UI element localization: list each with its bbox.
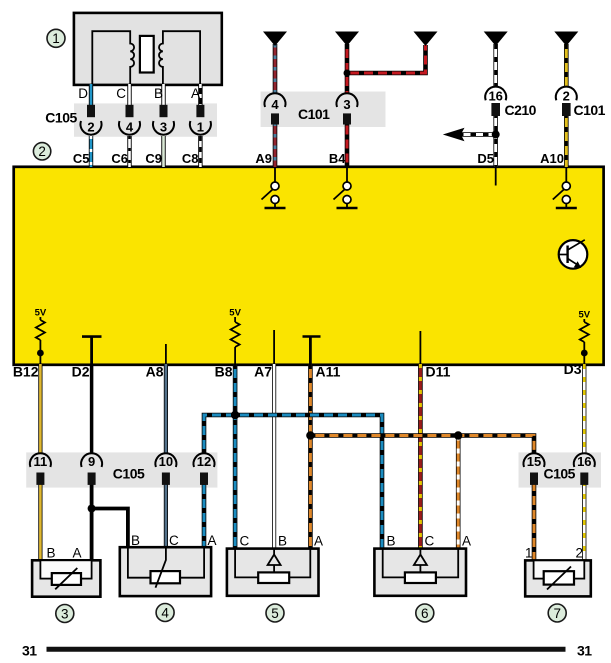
sensor 5 pot box — [227, 549, 319, 596]
svg-text:C105: C105 — [544, 466, 576, 482]
svg-text:A: A — [72, 546, 81, 561]
switch inside ECU at A10 — [553, 168, 577, 208]
wire A10 / C101 (yellow/black) — [564, 44, 569, 167]
C105 bottom pin 10 square — [162, 473, 170, 485]
C105 bottom pin 11 square — [36, 473, 44, 485]
svg-text:A: A — [208, 533, 217, 548]
coil core — [140, 36, 154, 73]
C105 bottom pin 9 arc — [81, 453, 102, 467]
ref circle 6 — [416, 604, 434, 622]
svg-text:B: B — [154, 86, 163, 101]
svg-text:B4: B4 — [329, 151, 346, 166]
svg-text:C: C — [425, 534, 435, 549]
svg-text:31: 31 — [577, 643, 592, 659]
transistor Q1 — [559, 240, 588, 269]
svg-text:B: B — [131, 533, 140, 548]
svg-text:4: 4 — [271, 97, 279, 112]
svg-text:7: 7 — [553, 606, 561, 621]
wire B / pin3 / C9 (white-green) — [161, 84, 165, 167]
svg-text:C5: C5 — [73, 151, 90, 166]
C101 pin 4 arc — [265, 93, 286, 107]
svg-text:3: 3 — [343, 97, 350, 112]
sensor 3 coolant temp box — [32, 560, 100, 596]
svg-text:B8: B8 — [215, 364, 233, 380]
svg-text:A7: A7 — [254, 364, 272, 380]
svg-text:B12: B12 — [13, 364, 39, 380]
C105 bottom pin 12 square — [200, 473, 208, 485]
pot resistor sensor6 — [405, 572, 436, 583]
wire D3 / pin16 (white/yellow) — [582, 364, 586, 562]
C101 right pin 2 arc — [556, 87, 577, 101]
svg-text:16: 16 — [577, 454, 591, 469]
svg-text:D: D — [78, 86, 88, 101]
svg-text:C: C — [240, 534, 250, 549]
triangle terminal above C210 — [484, 32, 508, 47]
ref circle 3 — [56, 605, 74, 623]
C105 top pin 3 arc — [153, 121, 174, 135]
ground bus 31 — [47, 647, 566, 652]
C101 right pin 2 square — [562, 103, 571, 116]
svg-text:2: 2 — [38, 144, 46, 159]
thermistor R sensor7 — [544, 571, 574, 584]
svg-text:6: 6 — [421, 606, 429, 621]
svg-text:3: 3 — [61, 606, 69, 621]
svg-text:5V: 5V — [35, 308, 47, 319]
C105 top pin 2 arc — [81, 121, 102, 135]
junction pin9 branch — [88, 505, 96, 513]
svg-text:B: B — [387, 534, 396, 549]
C101 pin 4 square — [271, 113, 279, 124]
junction orange bus / sensor6 A branch — [454, 431, 462, 439]
svg-text:5V: 5V — [229, 308, 241, 319]
ref circle 7 — [548, 604, 566, 622]
triangle terminal above A10 — [554, 32, 578, 47]
svg-text:C8: C8 — [182, 151, 199, 166]
svg-text:A8: A8 — [146, 364, 164, 380]
svg-text:A: A — [462, 534, 471, 549]
stub inside ECU at A7 — [273, 330, 275, 364]
wire pin15 to sensor7 pin1 (orange/black) — [532, 484, 537, 562]
connector C105 top gray box — [74, 103, 217, 136]
svg-text:1: 1 — [525, 546, 533, 561]
wire D2 / pin9 (black) — [90, 364, 94, 454]
C105 bottom pin 11 arc — [30, 453, 51, 467]
internal link T at D2 — [82, 337, 102, 364]
svg-text:4: 4 — [161, 605, 169, 620]
C210 pin 16 arc — [485, 87, 506, 101]
wire B12 / pin11 (yellow) — [38, 364, 42, 562]
svg-text:C210: C210 — [505, 102, 537, 118]
wire orange/black bus to pin15 — [310, 436, 534, 455]
svg-text:C101: C101 — [298, 106, 330, 122]
wire blue/black bus: pin12 elbow to sensor6 B — [204, 415, 382, 550]
svg-text:4: 4 — [126, 120, 134, 135]
wire D / pin2 / C5 (blue) — [89, 84, 93, 167]
5V pull-up resistor at B12 — [35, 308, 47, 365]
svg-text:10: 10 — [159, 454, 173, 469]
pot resistor sensor4 — [151, 571, 181, 583]
ref circle 2 — [33, 143, 50, 160]
svg-text:16: 16 — [488, 89, 502, 104]
C105 bottom pin 15 square — [530, 473, 538, 485]
secondary winding L2 — [159, 31, 200, 85]
svg-text:C6: C6 — [111, 151, 128, 166]
wire branch to arrow (white/black) — [459, 132, 496, 137]
svg-text:C: C — [169, 533, 179, 548]
C101 pin 3 arc — [337, 93, 358, 107]
svg-text:9: 9 — [88, 454, 95, 469]
svg-text:1: 1 — [197, 120, 204, 135]
wire B8 (blue/black) vertical to sensor5 C — [233, 364, 238, 550]
5V pull-up resistor at D3 — [578, 310, 590, 365]
svg-text:C105: C105 — [45, 110, 77, 126]
svg-text:D11: D11 — [426, 364, 451, 380]
wire orange/white down to sensor6 A — [456, 436, 461, 550]
switch inside ECU at B4 — [334, 168, 358, 208]
connector C101 gray box — [261, 92, 386, 128]
svg-text:31: 31 — [22, 643, 37, 659]
wire D5 / C210 (white/black) — [493, 44, 498, 167]
svg-text:A9: A9 — [255, 151, 272, 166]
svg-text:A: A — [191, 86, 200, 101]
svg-text:15: 15 — [527, 454, 541, 469]
svg-text:D5: D5 — [477, 151, 494, 166]
wire red/black horizontal to third arrow — [347, 45, 426, 73]
C105 bottom pin 15 arc — [524, 453, 545, 467]
triangle terminal third — [414, 32, 438, 47]
junction at D5 arrow branch — [492, 131, 500, 139]
svg-text:C: C — [116, 86, 126, 101]
svg-text:A: A — [314, 534, 323, 549]
svg-text:2: 2 — [563, 89, 570, 104]
wire black branch to sensor4 B — [92, 509, 128, 549]
stub inside ECU at A8 — [165, 344, 167, 364]
svg-text:D3: D3 — [564, 361, 582, 377]
C105 top pin 4 arc — [119, 121, 140, 135]
triangle terminal above A9 — [263, 32, 287, 47]
ref circle 5 — [266, 604, 284, 622]
svg-text:D2: D2 — [72, 364, 90, 380]
svg-text:11: 11 — [34, 454, 48, 469]
wire A8 / pin10 (slate) — [164, 364, 168, 549]
connector C105 bottom-left gray box — [26, 452, 217, 487]
junction B8 / blue bus — [231, 411, 239, 419]
ref circle 4 — [156, 604, 174, 622]
wire C / pin4 / C6 (white) — [127, 84, 131, 167]
stub inside ECU at D5 — [495, 168, 497, 186]
sensor 7 temp sensor box — [525, 560, 591, 596]
C101 pin 3 square — [343, 113, 351, 124]
pot resistor sensor5 — [258, 572, 289, 583]
C105 top pin 1 arc — [190, 121, 211, 135]
stub inside ECU at D11 — [419, 331, 421, 364]
ECU box (component 2) yellow — [14, 167, 604, 365]
svg-text:5V: 5V — [578, 310, 590, 321]
svg-text:B: B — [47, 546, 56, 561]
svg-text:5: 5 — [271, 606, 279, 621]
C105 top pin 1 square — [196, 105, 204, 117]
ignition coil assembly box (component 1) — [74, 13, 222, 85]
svg-text:C105: C105 — [113, 466, 145, 482]
svg-text:B: B — [278, 534, 287, 549]
primary winding L1 — [92, 31, 134, 85]
junction at B4 branch — [344, 70, 351, 77]
ref circle 1 — [47, 29, 65, 47]
svg-text:A10: A10 — [540, 151, 564, 166]
wire A11 (orange/black) vertical to sensor5 A — [308, 364, 313, 550]
svg-text:1: 1 — [52, 31, 60, 46]
C105 top pin 3 square — [160, 105, 168, 117]
svg-text:A11: A11 — [316, 364, 341, 380]
C210 pin 16 square — [491, 103, 500, 116]
wire D11 (dark red/yellow) to sensor6 C — [418, 364, 423, 550]
internal link T at A11 — [303, 337, 321, 365]
switch inside ECU at A9 — [262, 168, 286, 208]
wire A / pin1 / C8 (black-white) — [198, 84, 202, 167]
triangle terminal above B4 — [335, 32, 359, 47]
C105 bottom pin 16 arc — [574, 453, 595, 467]
svg-text:2: 2 — [87, 120, 94, 135]
connector C105 bottom-right gray box — [519, 452, 602, 487]
svg-text:12: 12 — [197, 454, 211, 469]
C105 bottom pin 12 arc — [194, 453, 215, 467]
wire B4 (red/black) vertical — [345, 44, 350, 167]
wire pin12 to sensor4 A (blue/black) — [202, 484, 207, 549]
C105 bottom pin 9 square — [88, 473, 96, 485]
sensor 4 throttle pot box — [120, 547, 211, 596]
wire A7 (white) to sensor5 B — [272, 364, 276, 550]
wire A9 (red/blue) — [273, 44, 278, 167]
arrow to other circuit (left) — [443, 128, 465, 142]
C105 top pin 2 square — [87, 105, 95, 117]
junction A11 / orange bus — [306, 431, 314, 439]
svg-text:C101: C101 — [574, 102, 606, 118]
svg-text:2: 2 — [576, 546, 584, 561]
svg-text:3: 3 — [160, 120, 167, 135]
svg-text:C9: C9 — [145, 151, 162, 166]
C105 bottom pin 16 square — [580, 473, 588, 485]
C105 top pin 4 square — [126, 105, 134, 117]
thermistor R sensor3 — [52, 573, 81, 585]
C105 bottom pin 10 arc — [155, 453, 176, 467]
5V pull-up resistor at B8 — [229, 308, 241, 365]
sensor 6 pot box — [374, 549, 466, 596]
